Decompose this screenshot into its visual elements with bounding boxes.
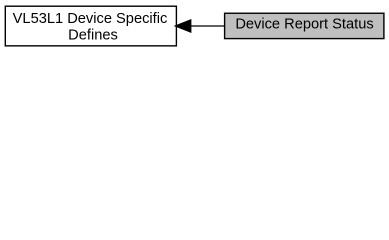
edge wire: [191, 25, 225, 27]
edge arrowhead: [175, 20, 191, 33]
background: [0, 0, 389, 52]
node: Device Report Status (grey box): [225, 13, 384, 38]
svg-text:VL53L1 Device Specific: VL53L1 Device Specific: [13, 11, 168, 27]
svg-text:Device Report Status: Device Report Status: [235, 17, 373, 33]
node: VL53L1 Device Specific Defines (white box): [5, 6, 176, 46]
svg-text:Defines: Defines: [68, 28, 118, 44]
